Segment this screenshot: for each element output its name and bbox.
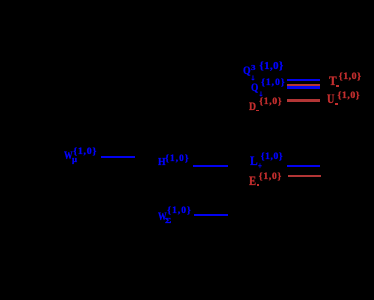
level line: thick red level (D/U group): [287, 99, 320, 102]
label U-(1,0): [327, 93, 334, 106]
label L+(1,0): [250, 155, 258, 168]
level line: lower blue level of the pair: [287, 86, 320, 89]
level line: blue level beside L_+: [287, 165, 320, 167]
level line: blue level beside H: [193, 165, 228, 168]
label Q3(1,0) down-arrow: [243, 66, 251, 78]
label H(1,0): [158, 158, 166, 169]
label WSigma(1,0): [158, 210, 167, 222]
level line: red level middle of Q group: [287, 84, 320, 86]
level line: blue level beside W_Sigma: [194, 214, 228, 217]
label T-(1,0): [329, 75, 337, 88]
level line: upper blue level of Q/T group: [287, 79, 320, 81]
label E-(1,0): [249, 175, 256, 188]
label D-(1,0): [249, 100, 256, 112]
label Wmu(1,0): [64, 151, 73, 163]
level line: red level beside E_-: [288, 175, 321, 177]
level line: blue level beside W_mu: [101, 156, 135, 158]
label Q(1,0) down-arrow: [251, 81, 258, 93]
